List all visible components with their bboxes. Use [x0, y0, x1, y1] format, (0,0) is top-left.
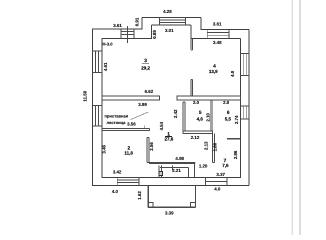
- svg-text:4.54: 4.54: [159, 121, 164, 130]
- wall: bottom exterior inner: [101, 176, 241, 178]
- wall: right exterior inner: [239, 38, 241, 177]
- svg-text:1.80: 1.80: [212, 142, 217, 151]
- svg-text:3.61: 3.61: [113, 23, 122, 28]
- wall: bay left inner: [151, 25, 153, 39]
- room 3 fraction line: [142, 63, 149, 65]
- svg-text:0.91: 0.91: [134, 17, 139, 26]
- interior wall: bar under room 3: [102, 96, 160, 100]
- interior wall: hall south wall A: [147, 162, 195, 163]
- svg-text:7,6: 7,6: [222, 163, 229, 168]
- svg-text:0.89: 0.89: [152, 30, 157, 39]
- wall: bay left outer: [141, 17, 143, 29]
- svg-text:2.74: 2.74: [234, 115, 239, 124]
- svg-text:13,9: 13,9: [209, 69, 218, 74]
- svg-text:лестница: лестница: [107, 120, 127, 125]
- svg-text:3.46: 3.46: [102, 144, 107, 153]
- svg-text:3.39: 3.39: [165, 210, 174, 215]
- svg-text:1.20: 1.20: [199, 164, 208, 169]
- wall: top-right segment inner: [191, 37, 241, 39]
- svg-text:2.86: 2.86: [233, 150, 238, 159]
- wall: bottom exterior outer: [92, 184, 249, 186]
- svg-text:2.12: 2.12: [191, 135, 200, 140]
- interior wall: vestibule left double: [159, 166, 162, 178]
- wall: top-left segment outer: [92, 28, 142, 30]
- wall: top-right segment outer: [201, 28, 250, 30]
- interior wall: room 7 left: [213, 134, 215, 163]
- window W2 bay top wall: [160, 17, 186, 25]
- svg-text:1.62: 1.62: [137, 191, 142, 200]
- svg-text:3.37: 3.37: [216, 172, 225, 177]
- svg-text:4.0: 4.0: [112, 189, 119, 194]
- svg-text:3.99: 3.99: [138, 102, 147, 107]
- door jamb tick room 2 top wall: [144, 125, 146, 128]
- room 1 fraction line: [165, 136, 172, 138]
- interior wall: room 6 bottom: [227, 138, 240, 140]
- porch left wall: [147, 185, 149, 207]
- interior wall: room 2 top: [102, 128, 150, 130]
- dim tick for 2.21: [172, 166, 174, 171]
- svg-text:11,8: 11,8: [124, 151, 133, 156]
- svg-text:2.21: 2.21: [172, 168, 181, 173]
- window W1 top-left wall: [121, 29, 134, 39]
- interior wall: vestibule door side: [194, 163, 196, 177]
- svg-text:3.01: 3.01: [165, 28, 174, 33]
- svg-text:приставная: приставная: [104, 114, 128, 119]
- interior wall: vestibule wall B: [160, 167, 189, 169]
- window W9 bottom wall room 7: [205, 177, 226, 185]
- wall: left exterior outer: [92, 29, 94, 185]
- interior wall: between rooms 3 and 4 upper segment: [191, 38, 193, 50]
- interior wall: room 5 / room 6 shared: [211, 100, 213, 134]
- svg-text:6.62: 6.62: [145, 89, 154, 94]
- ladder symbol diagonal: [131, 112, 149, 120]
- svg-text:29,2: 29,2: [141, 66, 150, 71]
- svg-text:3: 3: [144, 58, 147, 64]
- svg-text:2.13: 2.13: [204, 141, 209, 150]
- svg-text:4.0: 4.0: [230, 70, 235, 77]
- svg-text:3.48: 3.48: [213, 40, 222, 45]
- interior wall: between rooms 3 and 4 lower segment: [191, 80, 193, 96]
- window W4 left wall room 3: [93, 51, 102, 73]
- interior wall: room 5 bottom: [183, 131, 213, 133]
- svg-text:5,5: 5,5: [225, 116, 232, 121]
- svg-text:4.61: 4.61: [103, 62, 108, 71]
- svg-text:4.0: 4.0: [214, 186, 221, 191]
- svg-text:2.0: 2.0: [193, 100, 200, 105]
- svg-text:4.28: 4.28: [163, 9, 172, 14]
- window W7 right wall room 6: [240, 106, 249, 119]
- page scan line 2: [299, 0, 301, 235]
- svg-text:4,6: 4,6: [197, 116, 204, 121]
- svg-text:3.42: 3.42: [113, 170, 122, 175]
- svg-text:6: 6: [227, 110, 230, 116]
- page scan line 1: [292, 0, 294, 235]
- porch right wall: [194, 185, 196, 207]
- porch bottom edge: [148, 206, 195, 208]
- svg-text:2.10: 2.10: [206, 113, 211, 122]
- wall: bay right outer: [200, 17, 202, 29]
- svg-text:27,6: 27,6: [165, 137, 174, 142]
- interior wall: vestibule right jamb: [188, 168, 190, 178]
- wall: bay right inner: [190, 25, 192, 39]
- dimension tick line between 3.61 and 0.91: [126, 26, 128, 43]
- porch post right: [191, 202, 196, 207]
- window W5 left wall hall: [93, 106, 102, 126]
- svg-text:2.42: 2.42: [173, 109, 178, 118]
- interior wall: room 2 right: [147, 138, 149, 163]
- window W6 right wall room 4: [240, 53, 249, 75]
- svg-text:11.50: 11.50: [83, 90, 88, 101]
- wall: bay top inner: [152, 24, 191, 26]
- wall: right exterior outer: [248, 29, 250, 185]
- porch post left: [148, 202, 153, 207]
- wall: bay top outer: [142, 16, 201, 18]
- svg-text:Н-3.0: Н-3.0: [103, 41, 114, 46]
- svg-text:3.56: 3.56: [127, 122, 136, 127]
- window W3 top-right wall: [207, 29, 229, 38]
- window W8 bottom wall room 2: [117, 177, 139, 185]
- wall: left exterior inner: [101, 39, 103, 178]
- svg-text:3.61: 3.61: [213, 22, 222, 27]
- interior wall: bar under room 4: [177, 96, 241, 100]
- svg-text:2.56: 2.56: [149, 142, 154, 151]
- fixture box in vestibule: [159, 172, 162, 176]
- svg-text:4.98: 4.98: [175, 156, 184, 161]
- svg-text:5: 5: [199, 110, 202, 116]
- interior wall: room 5 left: [183, 102, 185, 131]
- svg-text:2.0: 2.0: [223, 100, 230, 105]
- wall: top-left segment inner: [101, 38, 152, 40]
